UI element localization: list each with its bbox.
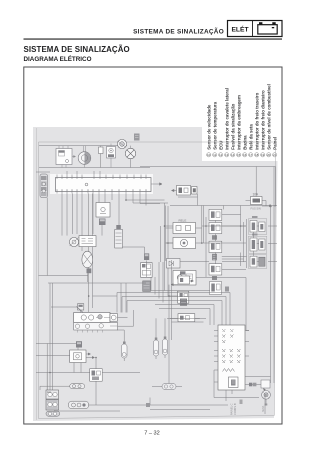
svg-text:10: 10 (207, 153, 211, 157)
passing switch (178, 314, 195, 322)
inner scan border (39, 142, 276, 419)
diagram contents (36, 128, 277, 420)
svg-text:16: 16 (243, 153, 247, 157)
bottom connector block B (46, 400, 59, 411)
ELÉT box (228, 21, 283, 37)
fuel level sensor (262, 390, 271, 412)
handlebar switch assembly (51, 304, 118, 333)
svg-text:Buzina: Buzina (242, 135, 247, 150)
right bend feeds (222, 215, 247, 260)
header rule (24, 39, 283, 40)
svg-text:DIAGRAMA ELÉTRICO: DIAGRAMA ELÉTRICO (24, 54, 92, 63)
mid coupler stack column (209, 209, 247, 294)
panel inner box (229, 377, 239, 388)
signal fuse (246, 192, 277, 210)
svg-text:Relé da seta: Relé da seta (248, 124, 253, 150)
wire: mid drops (99, 194, 160, 230)
ignition switch assembly (69, 236, 96, 247)
speed sensor block (56, 146, 76, 168)
bus output arrow (151, 183, 162, 186)
wire: into handlebar switch (93, 296, 134, 326)
wire: main mid horizontal (170, 205, 277, 207)
wire: right-mid verticals (166, 206, 241, 278)
temperature sensor (round) (78, 146, 91, 168)
svg-text:Sensor de nível de combustível: Sensor de nível de combustível (266, 84, 271, 150)
wire: trunks down mid (151, 226, 163, 303)
small junction box (99, 146, 104, 168)
gray scanned diagram area (33, 127, 278, 421)
instrument panel (214, 325, 249, 390)
panel lamp row 2 (222, 335, 234, 338)
wire: right edge verticals (246, 167, 274, 384)
svg-text:17: 17 (249, 153, 253, 157)
row 2 couplers (248, 236, 266, 253)
ECU coupler (96, 203, 110, 226)
panel lamp grid (222, 349, 241, 363)
wire: brake column verticals (169, 260, 172, 340)
tail bulb unit (82, 251, 93, 282)
brake switch column labels (169, 271, 200, 321)
wire: top horizontal run (39, 145, 127, 147)
svg-text:Interruptor do freio traseiro: Interruptor do freio traseiro (254, 92, 259, 149)
bus pins bottom (57, 190, 146, 194)
svg-text:FUS SIN: FUS SIN (251, 207, 261, 211)
svg-text:ELÉT: ELÉT (231, 24, 249, 33)
legend (rotated labels) (206, 84, 277, 157)
svg-text:RELE: RELE (179, 218, 187, 222)
svg-text:19: 19 (261, 153, 265, 157)
svg-text:A A: A A (47, 390, 51, 394)
svg-text:11: 11 (213, 153, 216, 157)
flasher relay (166, 218, 202, 233)
panel pins left (214, 331, 218, 383)
harness coupler pair (172, 186, 198, 206)
panel pins right (245, 331, 249, 357)
svg-text:PAINEL C: PAINEL C (230, 403, 234, 415)
svg-text:Interruptor da embreagem: Interruptor da embreagem (236, 95, 241, 150)
junction dots (49, 199, 241, 373)
bottom pin stubs (78, 330, 103, 333)
bus inner pin ticks (57, 177, 146, 180)
svg-text:13: 13 (225, 153, 229, 157)
wire: left short run (36, 171, 50, 173)
lower mid connector (69, 381, 229, 409)
right coupler column (248, 216, 266, 268)
wire: right-mid horizontals (166, 226, 278, 278)
wire: panel drop + bottom run (214, 370, 259, 401)
indicator bulb (125, 134, 139, 168)
wire: extra density runs (36, 167, 256, 387)
svg-text:Painel: Painel (272, 137, 277, 150)
wire: bottom right runs (245, 377, 271, 385)
rear oval connector (162, 384, 176, 390)
svg-text:14: 14 (231, 153, 235, 157)
wire: long run under legend (140, 167, 276, 207)
svg-text:21: 21 (273, 153, 277, 157)
bottom connector block A (46, 390, 59, 399)
svg-text:Sensor de velocidade: Sensor de velocidade (206, 104, 211, 150)
neutral switch (double circle) (117, 139, 126, 148)
wire harness bus bar (50, 171, 162, 194)
inter-row dark stacks (212, 235, 217, 240)
front brake switch (178, 291, 189, 303)
left entry wire (51, 307, 81, 313)
panel lamp row 1 (222, 329, 234, 332)
mid connector column (141, 253, 153, 291)
svg-text:Interruptor do freio dianteiro: Interruptor do freio dianteiro (260, 90, 265, 150)
svg-text:10A: 10A (253, 192, 260, 196)
wire: left column bottom links (40, 386, 70, 390)
outer frame (24, 67, 282, 424)
svg-text:COMPL B: COMPL B (233, 403, 237, 415)
wire: cluster bottom run (39, 167, 150, 169)
lever needle (77, 307, 84, 313)
resistor block (115, 225, 123, 248)
svg-text:12: 12 (219, 153, 223, 157)
panel meter zigzag (223, 369, 235, 372)
fuel level sensor coupler (261, 380, 270, 391)
svg-text:SISTEMA DE SINALIZAÇÃO: SISTEMA DE SINALIZAÇÃO (24, 45, 130, 54)
front turn signal lamp (117, 330, 127, 361)
wire: bar-to-right horizontals (123, 200, 169, 297)
rear brake switch (178, 276, 190, 284)
inline glyph on bottom run (146, 403, 150, 407)
svg-text:SISTEMA DE SINALIZAÇÃO: SISTEMA DE SINALIZAÇÃO (133, 27, 224, 36)
diode unit (167, 259, 181, 269)
row 3 couplers (248, 255, 266, 268)
small coupler pair lower (90, 369, 103, 382)
rear turn signal lamps (154, 318, 168, 359)
wire: bottom long runs (55, 394, 265, 414)
svg-text:Interruptor do cavalete latera: Interruptor do cavalete lateral (224, 88, 229, 150)
svg-text:SENS: SENS (263, 405, 265, 412)
svg-text:Sensor de temperatura: Sensor de temperatura (212, 101, 217, 149)
svg-text:20: 20 (267, 153, 271, 157)
key switch unit (70, 341, 95, 372)
svg-text:18: 18 (255, 153, 259, 157)
bottom oval connectors (46, 411, 60, 416)
panel lamp row 3 (222, 340, 226, 343)
svg-text:15: 15 (237, 153, 241, 157)
wire: mid-left drops (73, 194, 94, 252)
wire: nested routing above panel (117, 291, 230, 326)
wire: left trunk bundle (39, 198, 89, 412)
battery icon (258, 22, 277, 34)
wire: lower-left horizontals (36, 373, 92, 391)
small oval connector (70, 384, 85, 389)
svg-text:7 – 32: 7 – 32 (144, 431, 160, 437)
row 1 couplers (248, 219, 266, 235)
sidestand switch (107, 144, 116, 168)
svg-text:Fusível da sinalização: Fusível da sinalização (230, 103, 235, 149)
bus pins top (57, 171, 146, 179)
horn (166, 238, 202, 249)
legend item numbers (207, 153, 277, 157)
extra bottom coupler pair (210, 282, 222, 295)
clutch switch (173, 271, 196, 286)
inline connector on sensor wire (249, 383, 252, 387)
wire: long drops to handlebar switch (89, 194, 93, 313)
left multi-pin connector (40, 174, 48, 198)
